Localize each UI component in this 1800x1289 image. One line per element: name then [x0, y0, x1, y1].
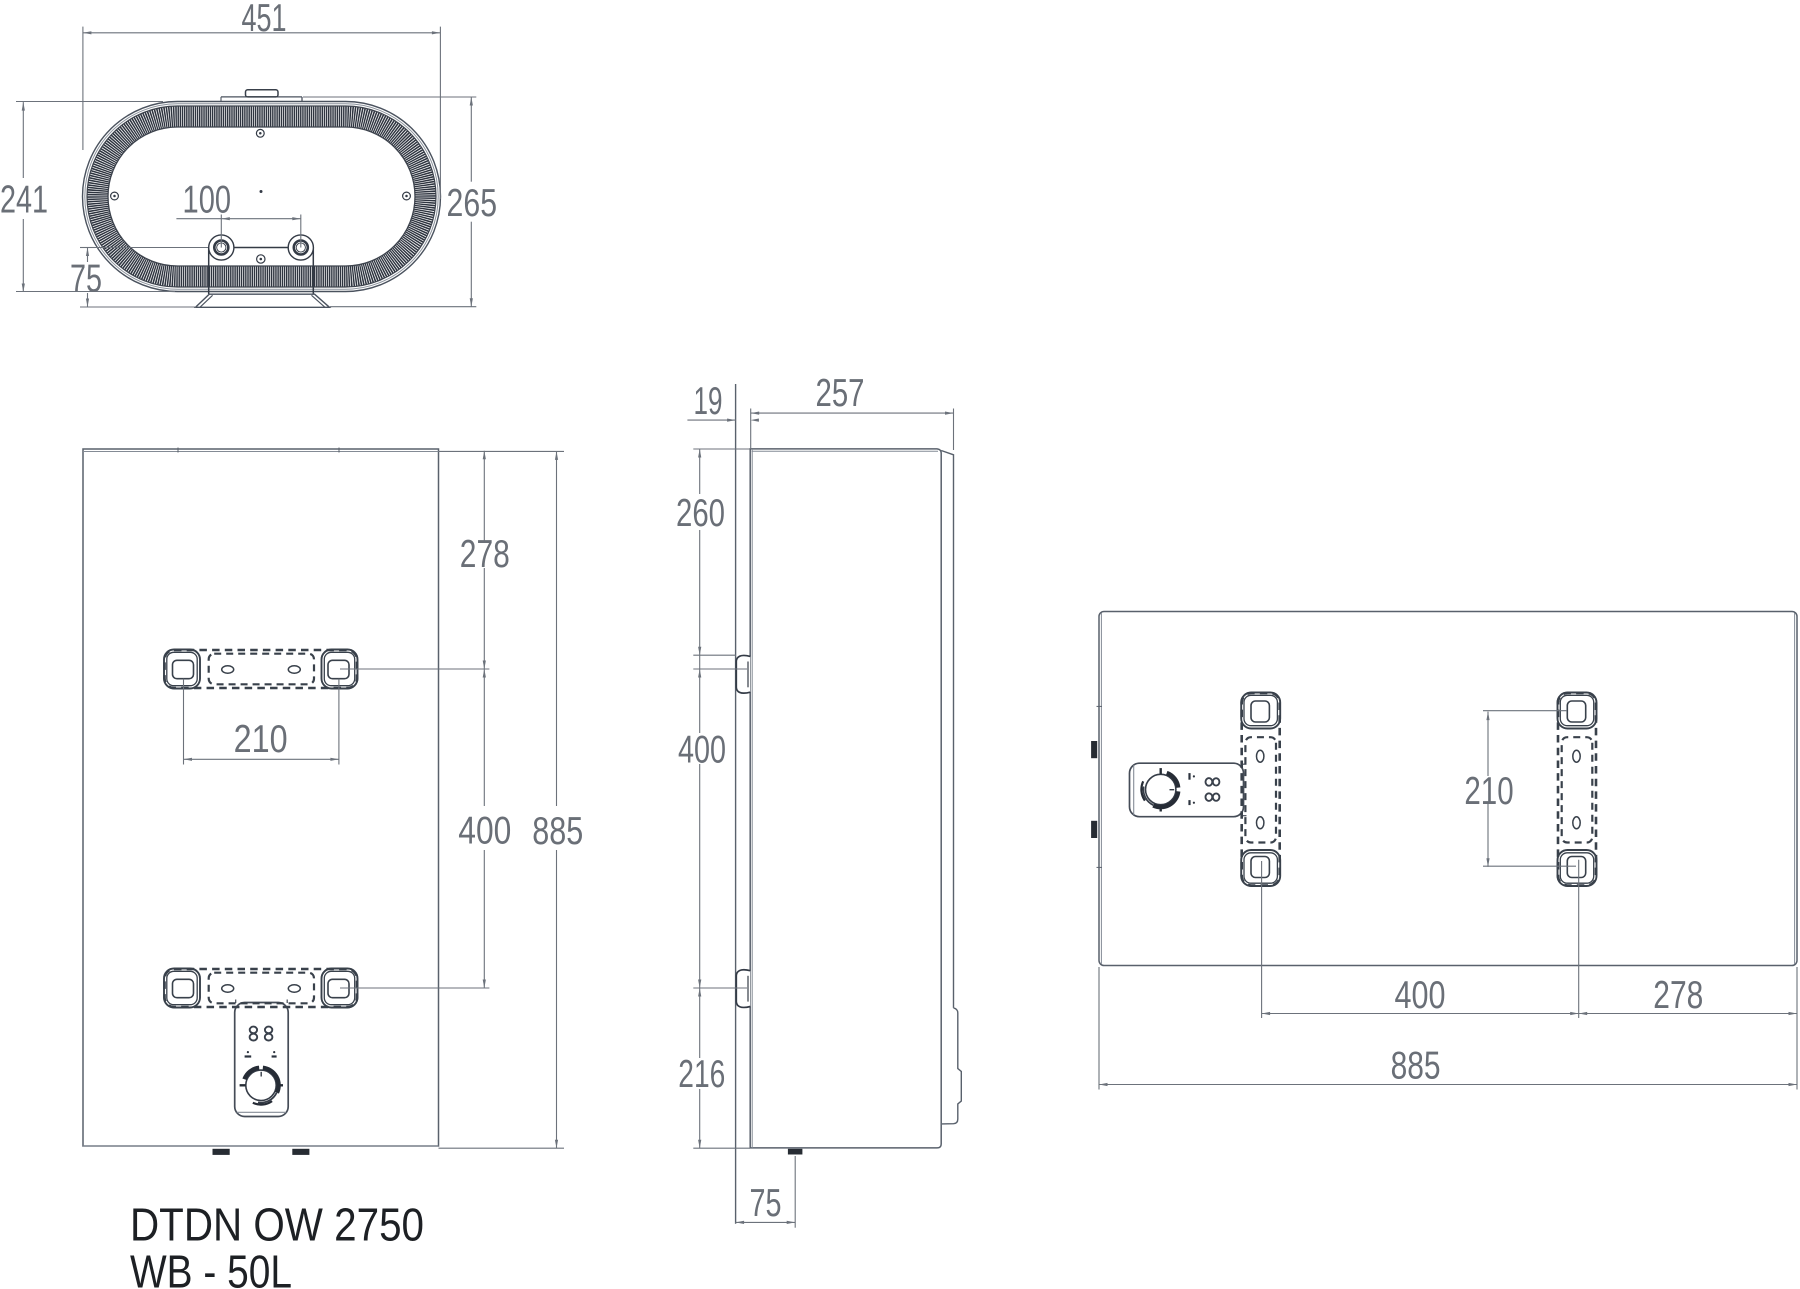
bottom extension	[693, 1147, 750, 1149]
svg-text:885: 885	[532, 810, 583, 853]
dim 400/278 line	[1262, 1013, 1797, 1015]
dim 100	[220, 215, 222, 248]
knurled band teeth	[98, 117, 426, 277]
upper wall hook	[736, 655, 750, 693]
svg-text:210: 210	[234, 718, 288, 761]
inner top line	[83, 451, 439, 453]
inner bottom line	[83, 1145, 439, 1147]
svg-text:260: 260	[676, 492, 725, 535]
dim 241	[16, 101, 163, 103]
control panel	[235, 1000, 289, 1117]
inner top line	[752, 450, 939, 452]
base fold right	[312, 295, 326, 307]
front cover edge	[941, 451, 953, 1008]
bracket leader upper	[340, 668, 489, 670]
left bracket (rotated)	[1241, 693, 1280, 887]
screw top center	[256, 129, 264, 137]
seam tick right	[338, 448, 340, 453]
svg-text:400: 400	[1395, 974, 1446, 1017]
second outline	[85, 104, 438, 289]
screw between pipes	[257, 255, 265, 263]
bottom extension	[439, 1147, 565, 1149]
bracket leader right	[1578, 860, 1580, 1018]
knurled band inner edge / inner shell	[108, 127, 415, 266]
dim 885 line	[556, 451, 558, 806]
svg-text:19: 19	[694, 380, 723, 423]
svg-text:451: 451	[242, 0, 287, 40]
inner right line	[1794, 613, 1796, 964]
svg-text:885: 885	[1391, 1045, 1441, 1088]
seam tick left	[177, 448, 179, 453]
inner left line	[1100, 613, 1102, 964]
right extension	[1796, 967, 1798, 1090]
knurled band outer edge	[87, 106, 436, 287]
svg-text:278: 278	[460, 533, 510, 576]
foot right	[292, 1149, 309, 1155]
svg-text:400: 400	[678, 729, 726, 772]
seam tick lower	[1097, 866, 1103, 868]
dim 210 leaders	[183, 679, 185, 765]
dim 210 extensions	[1483, 710, 1567, 712]
lower wall hook	[736, 970, 750, 1008]
svg-text:216: 216	[678, 1053, 725, 1096]
svg-text:257: 257	[816, 372, 865, 415]
body outline	[750, 449, 941, 1148]
control panel (rotated)	[1130, 763, 1247, 817]
lower bracket	[164, 969, 358, 1008]
svg-text:265: 265	[447, 182, 498, 225]
dim 19	[687, 419, 735, 421]
bracket leader left	[1261, 861, 1263, 1018]
tab handle	[246, 90, 279, 97]
seam tick upper	[1097, 705, 1103, 707]
dim 260/400/216 line	[699, 449, 701, 494]
top cover flat line	[221, 96, 302, 98]
right bracket (rotated)	[1558, 693, 1597, 887]
svg-text:400: 400	[458, 810, 511, 853]
dim 265	[303, 96, 476, 98]
foot left	[213, 1149, 230, 1155]
inner white area	[109, 128, 414, 265]
pipe bracket plate	[209, 248, 314, 295]
foot	[788, 1149, 803, 1155]
dim 278/400 line	[483, 451, 485, 543]
svg-text:WB - 50L: WB - 50L	[130, 1246, 292, 1289]
left extension	[1098, 967, 1100, 1090]
svg-text:210: 210	[1464, 770, 1513, 813]
svg-text:100: 100	[183, 179, 232, 222]
foot lower	[1091, 821, 1097, 838]
dim 257	[750, 409, 752, 449]
left dim extensions	[693, 448, 750, 450]
pipe right	[288, 235, 313, 260]
wall line	[735, 384, 737, 1224]
small center dot	[260, 190, 263, 193]
svg-text:278: 278	[1653, 974, 1703, 1017]
base plate	[196, 294, 330, 307]
svg-text:DTDN OW 2750: DTDN OW 2750	[130, 1199, 424, 1251]
inner back line	[751, 449, 753, 1148]
pipe left	[209, 235, 234, 260]
outer shell stadium	[83, 102, 441, 292]
screw left	[111, 192, 119, 200]
dim 75 (side)	[794, 1156, 796, 1228]
pipe center extension line (75 ref)	[80, 247, 209, 249]
svg-text:241: 241	[0, 179, 48, 222]
svg-text:75: 75	[750, 1182, 782, 1225]
top extension	[439, 450, 565, 452]
screw right	[403, 192, 411, 200]
dim 885 line	[1099, 1084, 1797, 1086]
dim 210	[184, 758, 339, 760]
dim 210	[1487, 712, 1489, 776]
foot upper	[1091, 741, 1097, 758]
upper bracket	[164, 650, 358, 689]
body outline	[83, 449, 439, 1146]
dim 451	[82, 27, 84, 150]
svg-text:75: 75	[70, 258, 102, 301]
base fold left	[200, 295, 213, 307]
body outline	[1099, 612, 1797, 966]
dim 75 (top view)	[80, 247, 95, 249]
bracket leader lower	[340, 987, 489, 989]
side panel protrusion	[942, 1008, 961, 1124]
